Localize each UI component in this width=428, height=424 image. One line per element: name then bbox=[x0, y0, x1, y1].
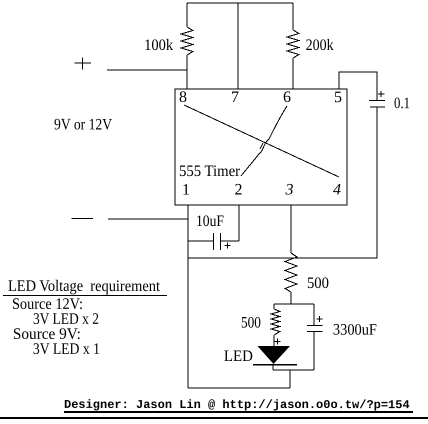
resistor R4 500 bbox=[271, 309, 280, 335]
wire parallel bottom rail bbox=[273, 369, 314, 371]
svg-text:10uF: 10uF bbox=[196, 213, 224, 230]
svg-text:8: 8 bbox=[179, 89, 187, 106]
wire pin6 lower bbox=[292, 58, 294, 89]
capacitor C1 0.1 plates bbox=[369, 101, 385, 108]
wire cap 0.1 down bbox=[376, 107, 378, 258]
terminal minus symbol bbox=[72, 218, 94, 220]
svg-text:3V LED x 1: 3V LED x 1 bbox=[33, 341, 100, 358]
wire pin7 vertical bbox=[237, 3, 239, 89]
wire R4 to LED bbox=[273, 335, 275, 346]
wire cap branch upper bbox=[313, 304, 315, 325]
svg-text:5: 5 bbox=[334, 89, 342, 106]
svg-text:LED Voltage requirement: LED Voltage requirement bbox=[8, 278, 161, 295]
svg-text:3: 3 bbox=[285, 182, 294, 199]
annotation line A bbox=[184, 105, 339, 177]
wire LED down bbox=[272, 365, 274, 370]
capacitor C3 plus bbox=[317, 316, 323, 322]
wire pin6 upper bbox=[292, 3, 294, 30]
wire parallel top rail bbox=[274, 303, 314, 305]
wire bottom drop bbox=[289, 370, 291, 388]
svg-text:3300uF: 3300uF bbox=[333, 322, 377, 339]
LED D1 triangle bbox=[258, 346, 291, 364]
wire left branch stub bbox=[273, 304, 275, 309]
bottom border line bbox=[0, 417, 428, 419]
op-amp U1 555 timer box bbox=[175, 89, 347, 205]
resistor R1 100k bbox=[181, 27, 193, 55]
capacitor C1 plus bbox=[378, 91, 385, 97]
LED plus bbox=[275, 339, 281, 345]
wire 10uF left bbox=[188, 240, 213, 242]
terminal plus symbol bbox=[75, 58, 92, 70]
svg-text:200k: 200k bbox=[306, 37, 334, 54]
capacitor C3 3300uF plates bbox=[307, 326, 323, 332]
wire bottom rail bbox=[188, 387, 290, 389]
wire top rail bbox=[187, 2, 293, 4]
wire pin5 to cap bbox=[339, 72, 377, 100]
wire pin8 upper bbox=[186, 3, 188, 27]
capacitor C2 plus bbox=[225, 243, 231, 249]
underline LED voltage title bbox=[3, 295, 167, 297]
svg-text:2: 2 bbox=[235, 182, 243, 199]
wire plus to pin8 bbox=[107, 69, 187, 71]
LED D1 cathode bar bbox=[253, 364, 297, 366]
wire pin2 stub bbox=[238, 205, 240, 241]
wire R3 to rail bbox=[290, 292, 292, 304]
wire minus to rail bbox=[108, 218, 188, 220]
svg-text:555 Timer: 555 Timer bbox=[179, 163, 241, 180]
wire 10uF right bbox=[221, 240, 239, 242]
wire ground rail bbox=[188, 257, 378, 259]
svg-text:7: 7 bbox=[231, 89, 239, 106]
wire pin1 rail bbox=[187, 205, 189, 388]
svg-text:4: 4 bbox=[333, 182, 341, 199]
wire cap branch lower bbox=[313, 332, 315, 370]
svg-text:1: 1 bbox=[182, 181, 190, 198]
svg-text:6: 6 bbox=[283, 89, 291, 106]
capacitor C2 10uF plates bbox=[214, 233, 221, 250]
svg-text:9V or 12V: 9V or 12V bbox=[54, 116, 112, 133]
annotation line B with hop bbox=[241, 106, 287, 176]
resistor R2 200k bbox=[287, 30, 299, 58]
svg-text:500: 500 bbox=[307, 275, 329, 292]
resistor R3 500 bbox=[285, 253, 297, 292]
wire pin8 lower bbox=[186, 55, 188, 89]
svg-text:100k: 100k bbox=[144, 37, 173, 54]
svg-text:500: 500 bbox=[241, 315, 261, 332]
underline designer bbox=[64, 411, 413, 413]
svg-text:0.1: 0.1 bbox=[394, 95, 410, 112]
wire pin3 down bbox=[290, 205, 292, 253]
svg-text:LED: LED bbox=[224, 348, 253, 365]
svg-text:Designer: Jason Lin @ http://j: Designer: Jason Lin @ http://jason.o0o.t… bbox=[64, 398, 410, 412]
